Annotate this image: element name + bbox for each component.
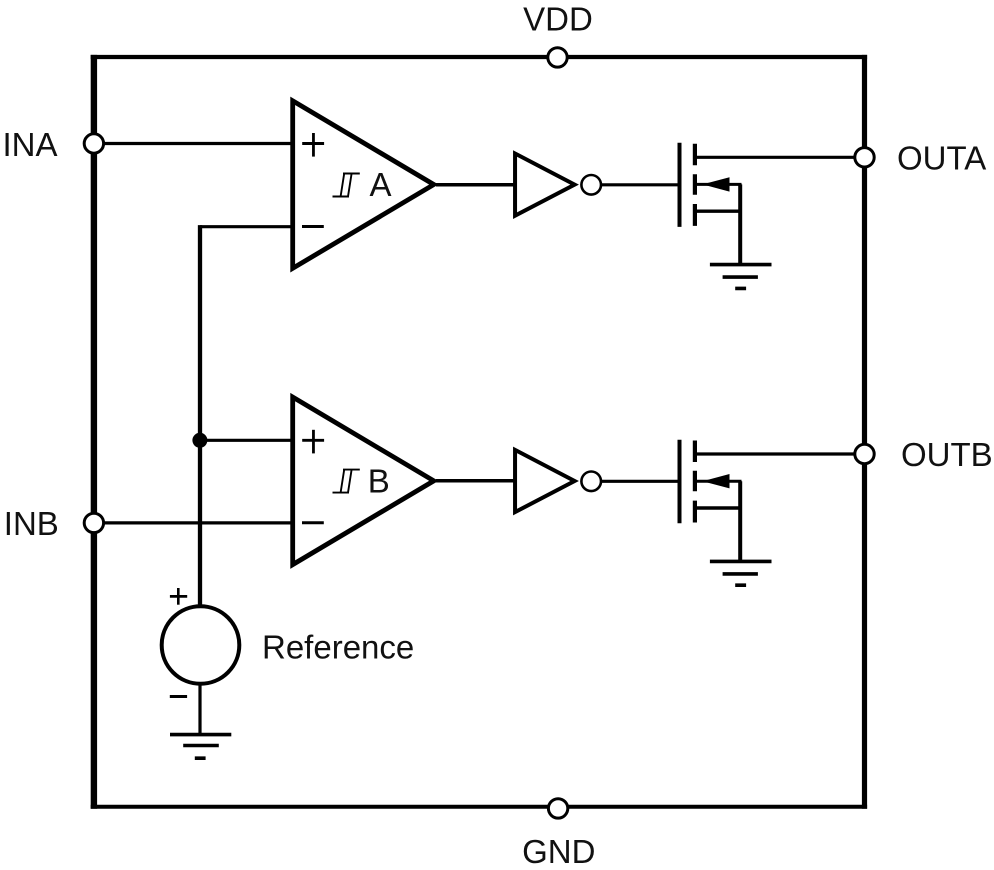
transistor Q1 source stub	[696, 209, 742, 212]
comparator A + symbol	[302, 142, 324, 145]
buffer A triangle	[515, 154, 575, 216]
pin OUTA terminal	[855, 148, 874, 167]
wire comparator B output to buffer B	[436, 479, 517, 483]
hysteresis symbol B	[333, 470, 360, 493]
wire comparator A - input horizontal	[200, 225, 293, 228]
enclosure border right	[862, 55, 867, 809]
comparator B body	[293, 397, 434, 564]
transistor Q2 channel segments	[693, 441, 697, 523]
svg-text:INB: INB	[4, 505, 59, 542]
reference - polarity mark	[170, 695, 187, 698]
svg-text:VDD: VDD	[523, 1, 593, 38]
svg-text:B: B	[368, 462, 390, 499]
reference + polarity mark	[170, 595, 187, 598]
junction node at reference tap	[192, 433, 207, 448]
transistor Q2 body stub	[696, 480, 742, 483]
wire comparator A output to buffer A	[436, 183, 517, 187]
wire node to reference vertical	[198, 225, 202, 608]
transistor Q2 body arrow	[703, 474, 730, 488]
comparator B + symbol	[302, 439, 324, 442]
wire reference to ground	[198, 684, 201, 735]
hysteresis symbol A	[333, 174, 360, 197]
svg-text:A: A	[370, 166, 392, 203]
wire Q1 drain to OUTA	[695, 156, 858, 159]
wire INB to comparator B - input	[96, 521, 293, 524]
transistor Q1 gate line	[678, 143, 682, 227]
transistor Q1 channel segments	[693, 144, 697, 226]
wire Q2 drain to OUTB	[695, 452, 858, 455]
comparator A - symbol	[302, 225, 324, 228]
pin VDD terminal	[548, 48, 567, 67]
svg-text:Reference: Reference	[262, 628, 414, 665]
transistor Q2 source stub	[696, 506, 742, 509]
transistor Q1 body arrow	[703, 177, 730, 191]
wire buffer A bubble to Q1 gate	[601, 183, 681, 186]
comparator B - symbol	[302, 521, 324, 524]
wire node to comparator B + input	[200, 439, 293, 442]
ground under Q2	[710, 561, 772, 585]
buffer B inversion bubble	[581, 472, 601, 492]
comparator A body	[293, 101, 434, 268]
ground under Q1	[710, 265, 772, 289]
pin OUTB terminal	[855, 444, 874, 463]
svg-text:OUTB: OUTB	[901, 436, 993, 473]
enclosure border left	[91, 55, 97, 809]
ground under reference	[170, 735, 231, 759]
buffer A inversion bubble	[581, 175, 601, 195]
wire buffer B bubble to Q2 gate	[601, 480, 681, 483]
enclosure border top	[91, 55, 867, 59]
pin GND terminal	[548, 799, 567, 818]
pin INA terminal	[84, 134, 103, 153]
svg-text:INA: INA	[3, 126, 58, 163]
transistor Q2 source drop wire	[738, 481, 742, 561]
wire INA to comparator A + input	[96, 142, 293, 145]
enclosure border bottom	[91, 805, 867, 809]
pin INB terminal	[84, 513, 103, 532]
svg-text:OUTA: OUTA	[897, 139, 986, 176]
transistor Q2 gate line	[678, 440, 682, 524]
transistor Q1 source drop wire	[738, 184, 742, 264]
reference source circle	[162, 606, 240, 684]
svg-text:GND: GND	[522, 833, 595, 870]
buffer B triangle	[515, 450, 575, 512]
transistor Q1 body stub	[696, 183, 742, 186]
